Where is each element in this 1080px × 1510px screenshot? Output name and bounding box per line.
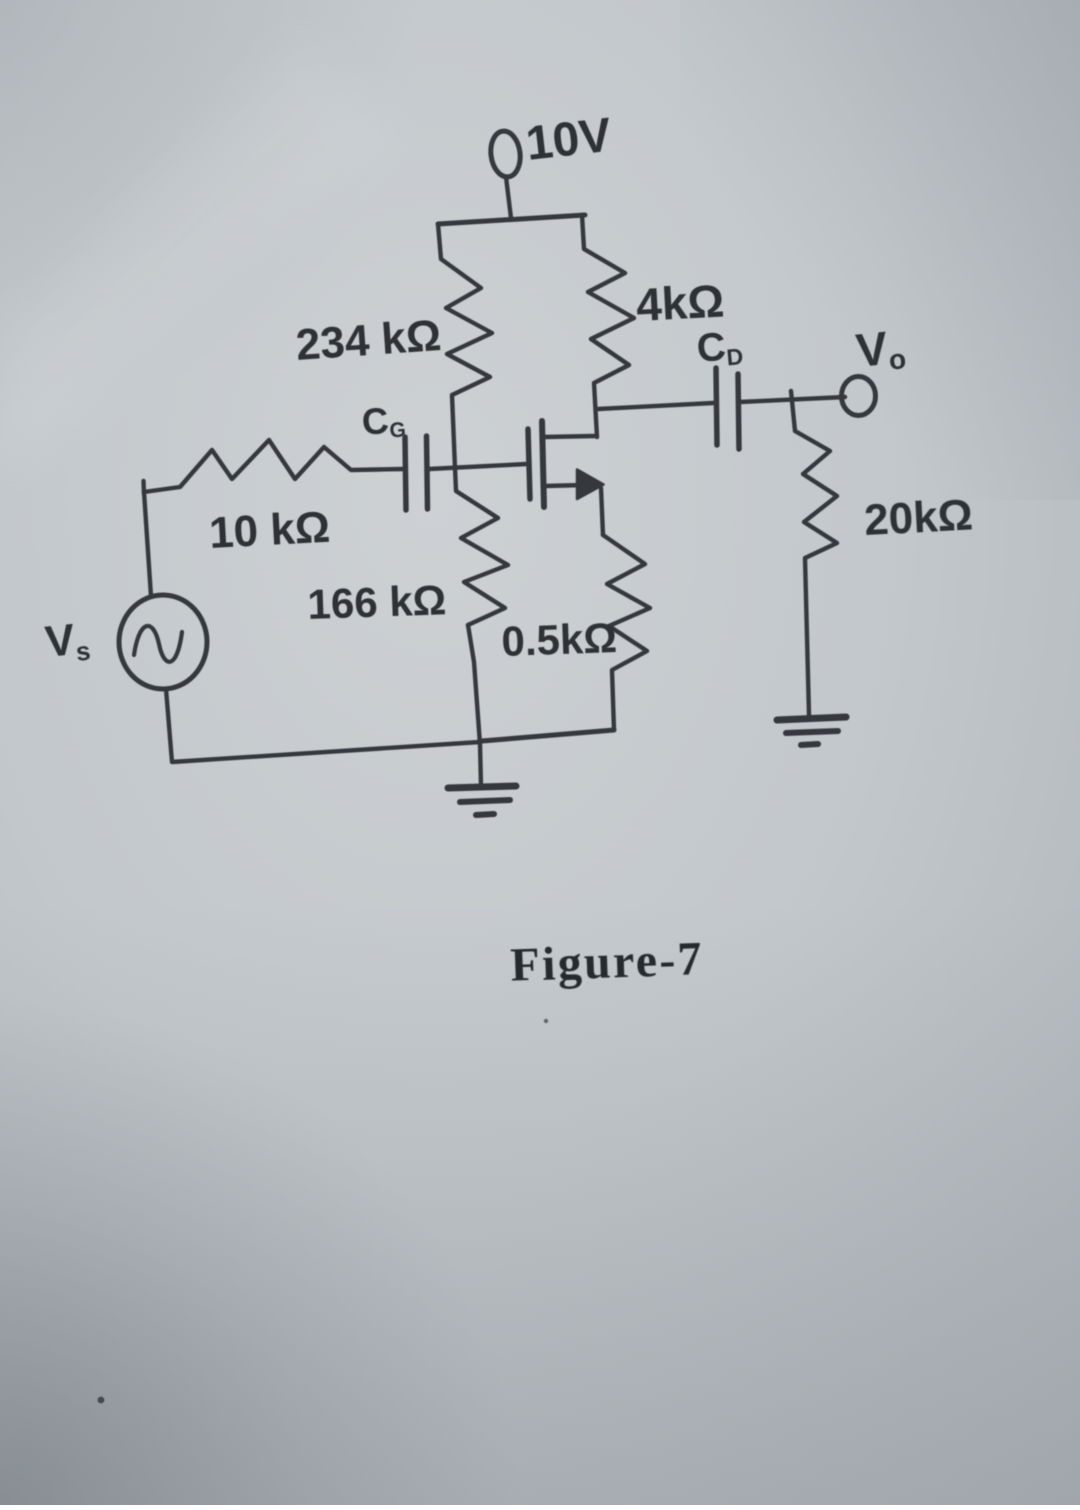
svg-text:234 kΩ: 234 kΩ: [294, 311, 442, 370]
wire supply drop: [506, 177, 511, 218]
resistor 166k: [455, 468, 508, 625]
svg-text:0.5kΩ: 0.5kΩ: [501, 614, 618, 665]
capacitor CG: [405, 437, 406, 510]
wire gate rail: [429, 464, 527, 469]
resistor 20k: [791, 391, 837, 715]
wire output rail: [598, 403, 713, 409]
wire top rail: [438, 215, 585, 224]
wire corner tick: [141, 481, 146, 494]
wire cap to output: [740, 397, 845, 402]
source VS circle: [119, 595, 207, 689]
svg-text:10 kΩ: 10 kΩ: [208, 503, 331, 558]
ground main: [448, 786, 516, 788]
resistor 4k: [582, 215, 634, 437]
capacitor CD: [716, 368, 717, 445]
wire ground drop: [468, 625, 481, 786]
transistor Q1 source arrow: [577, 470, 604, 500]
svg-text:20kΩ: 20kΩ: [863, 490, 974, 545]
svg-text:Figure-7: Figure-7: [510, 932, 705, 992]
wire bottom right segment: [482, 730, 614, 741]
svg-text:4kΩ: 4kΩ: [635, 274, 726, 331]
wire source drop: [601, 488, 603, 535]
svg-text:166 kΩ: 166 kΩ: [307, 576, 447, 628]
wire source bottom: [166, 689, 480, 762]
transistor Q1 channel bar: [542, 421, 544, 507]
wire source lead: [544, 485, 585, 486]
resistor 234k: [438, 224, 492, 468]
wire left drop to source: [144, 492, 151, 596]
svg-text:10V: 10V: [523, 109, 614, 171]
resistor 0.5k: [603, 535, 650, 730]
ground right: [777, 717, 846, 720]
output terminal circle: [842, 377, 876, 416]
paper specks: [544, 1019, 548, 1023]
transistor Q1 gate bar: [528, 429, 530, 499]
resistor 10k: [144, 440, 404, 492]
wire drain lead: [544, 436, 595, 437]
supply terminal 10V: [488, 129, 522, 178]
